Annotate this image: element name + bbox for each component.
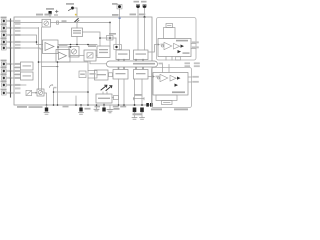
wire stub x76 bottom (75, 96, 77, 105)
wire ADC1 down to bar (90, 61, 107, 64)
loudspeaker LS2 icon (156, 95, 177, 105)
wire V0 (x53.5 down) (53, 88, 55, 105)
capacitor C1 (top bypass) (46, 8, 58, 17)
wires PWM2 outputs down (134, 79, 136, 105)
connector J10 (1, 89, 14, 95)
wire crystal pins into CLK1 (137, 17, 139, 50)
crystal Y1 with load capacitors (130, 1, 147, 17)
connector J7 (1, 67, 14, 73)
node marker (blue pin) (119, 17, 121, 19)
labels under SP2 (151, 108, 188, 110)
op-amp U4 in AMP2 (158, 74, 168, 81)
wire pin row 9 (14, 84, 26, 86)
op-amp A1 (preamp) (43, 40, 59, 54)
capacitor C4 above SRC1 (107, 33, 122, 50)
bar-to-AMP2 connector stub (159, 63, 170, 73)
transistor Q1 (below top edge) (75, 19, 79, 22)
dimension label over output caps (134, 94, 145, 100)
wire pin row 3 (14, 35, 43, 45)
op-amp U3 in AMP1 (174, 43, 180, 49)
stubs bar to PWM blocks (118, 67, 120, 70)
connector J4 (1, 38, 14, 44)
amplifier module AMP2 (153, 73, 188, 96)
stubs coil to BT1 (103, 92, 107, 94)
capacitor C5 with ground (44, 105, 49, 114)
connector J6 (1, 60, 14, 66)
AMP1 bottom stubs (166, 57, 172, 61)
speaker enclosure box SP2 (bottom right) (152, 68, 192, 108)
junction dots on H-bus (70, 44, 72, 46)
wire V2 (x88) (87, 62, 89, 105)
wire A2 out (70, 55, 84, 57)
capacitor C10 pair at corner (146, 103, 152, 107)
block IN-AMP H1 (14, 62, 33, 70)
capacitor C6 with ground (79, 104, 91, 114)
wire rail 2 branch y66.5 (42, 66, 58, 68)
value label under C8/C9 (133, 113, 143, 115)
capacitor C9 (electrolytic pair, right) (140, 104, 145, 119)
wire A1 output to mixer (57, 46, 71, 48)
node marker (yellow) (75, 14, 77, 16)
wire rail 1 branch y62 (39, 61, 89, 63)
block DAC1 (bottom row) (26, 90, 32, 95)
bus bar (P-audio link LVDS) (107, 61, 158, 67)
pin labels inside left edge of U1 (15, 20, 21, 94)
connector J3 (1, 31, 14, 37)
capacitor C3 (top, boxed) (112, 3, 122, 17)
wire ADC1 to DSP1 (96, 55, 97, 57)
wire y38 (100, 37, 116, 39)
block DSP1 (97, 46, 110, 58)
tick component on signal line (57, 21, 59, 24)
wire BT1 stub to bottom edge (103, 103, 105, 105)
wire signal bus y22.5 segment 2 (51, 22, 111, 24)
wire pin row 5 to preamp (14, 48, 43, 49)
junction rail1/branch (38, 61, 40, 63)
junction V2/y92 (87, 91, 89, 93)
block T2 (small label box) (88, 71, 97, 79)
block IN-AMP H2 (14, 72, 33, 80)
block XCVR (tiny) (112, 96, 119, 100)
loudspeaker LS1 icon (164, 24, 176, 39)
wire pin row 7 short (14, 70, 21, 72)
wire OSC1 right then down (83, 32, 101, 46)
wire h-line y92 (54, 91, 89, 93)
ground GND2 (94, 104, 99, 111)
wire CLK1 to AMP1 input (148, 45, 158, 53)
ground GND1 (107, 105, 120, 113)
block ADC1 (84, 45, 96, 61)
block IF1 (95, 70, 113, 80)
AMP1 output pins with labels (191, 41, 199, 48)
class-D arrows AMP2 (175, 77, 181, 87)
capacitor C2 (electrolytic, angled) (66, 3, 77, 11)
wire C3 pin down into SRC1 (119, 17, 121, 50)
label in AMP2 (172, 91, 185, 93)
wire Q1 to OSC1 (76, 22, 78, 28)
op-amp U2 in AMP1 (162, 42, 172, 49)
block PWM2 (below bar) (134, 70, 149, 80)
input bus (thick vertical ground/shield bus) (10, 19, 12, 97)
junction V0/y92 (53, 91, 55, 93)
label under bottom-left edge (17, 106, 27, 108)
amplifier module AMP1 (158, 39, 191, 57)
block CLK1 (134, 50, 149, 60)
curved arrow (trim) with label (50, 84, 57, 88)
wire PWM2 to AMP2 input (148, 76, 153, 78)
net label on signal line (62, 20, 67, 22)
wire MON2 out to C5 node (44, 93, 47, 105)
pin labels under bottom edge (63, 106, 127, 108)
antenna/coil L1 (arrows) (101, 85, 112, 90)
op-amp U5 in AMP2 (170, 75, 176, 81)
speaker enclosure box SP1 (top right) (157, 18, 197, 61)
wire x110 (109, 23, 111, 47)
block VCA1 (circle symbol) (36, 14, 52, 27)
net label gain (59, 44, 68, 46)
block T1 (small label box) (79, 71, 86, 78)
AMP2 input pin (153, 75, 160, 77)
wire horizontal bus (y44.5) (58, 44, 97, 46)
pin labels top-right of SP2 (185, 62, 200, 67)
junction dots on input bus (10, 20, 12, 94)
small box under AMP1 (176, 57, 181, 60)
wires PWM1 outputs down (118, 79, 120, 105)
arrow DAC1 to MON2 (32, 92, 37, 94)
connector J8 (1, 74, 14, 80)
block MON2 (bottom row meter) (37, 89, 44, 96)
connector J1 (1, 17, 14, 23)
connector J9 (1, 81, 14, 87)
pin marks on bar stubs (118, 59, 144, 69)
label in AMP1 (183, 52, 190, 54)
wire signal bus y22.5 segment 1 (14, 22, 42, 24)
block BT1 (96, 94, 112, 103)
wire rail 2 (x43.5) (41, 28, 43, 90)
junction dots bottom edge (46, 104, 125, 106)
wire pin row 2 to rail1 (14, 27, 39, 29)
wire rail 1 (x40.5 down) (38, 28, 40, 90)
block PWM1 (below bar) (113, 70, 128, 80)
block OSC1 (72, 28, 83, 37)
junction on top edge (144, 16, 146, 18)
junction at x110 bend (109, 22, 111, 24)
connector J2 (1, 24, 14, 30)
mixer M1 (circle) (69, 47, 79, 58)
block SRC1 (116, 50, 130, 60)
IC main boundary box U1 (14, 17, 152, 105)
connector J5 (1, 44, 14, 50)
label under bottom edge (copyright) (29, 106, 43, 108)
class-D arrows AMP1 (178, 45, 185, 54)
wire C2 to top edge pin (76, 8, 78, 17)
wire OSC1 down to H-bus (76, 37, 78, 45)
junction V1/branch y62 (57, 61, 59, 63)
junction branch/V1 (57, 66, 59, 68)
stubs SRC1/CLK1 to bar (118, 60, 120, 62)
wire V1 (x57.5) (57, 62, 59, 105)
AMP2 output pins with labels (188, 76, 199, 83)
op-amp A2 (56, 50, 70, 63)
wire pin row 4 (14, 41, 37, 43)
capacitor C8 (electrolytic pair, left) (132, 104, 137, 119)
AMP1 input pin (158, 43, 165, 45)
node plus mark (56, 10, 59, 13)
capacitor C7 (102, 104, 105, 111)
